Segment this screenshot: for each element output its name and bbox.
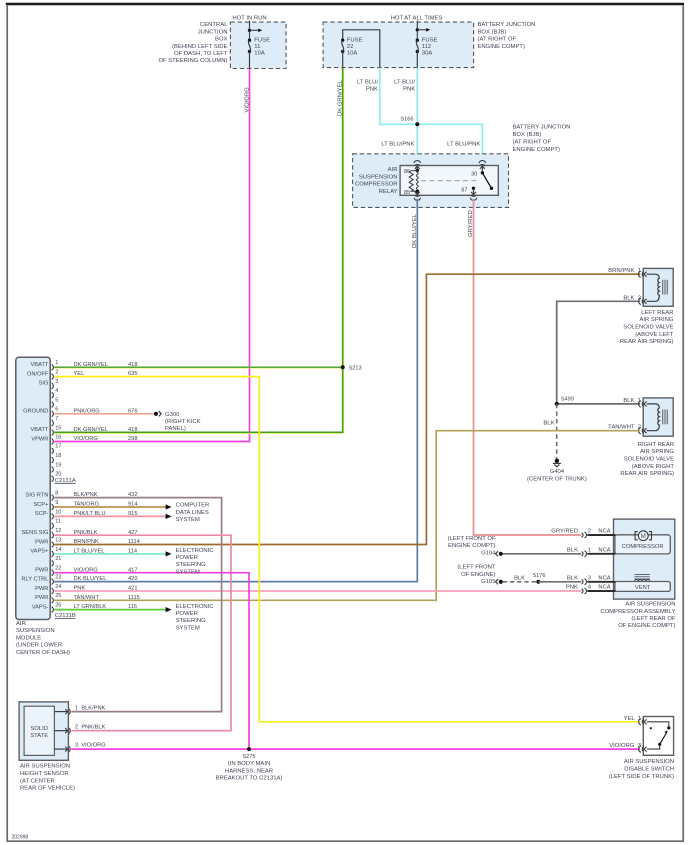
svg-text:(LEFT FRONT OF: (LEFT FRONT OF	[448, 536, 496, 542]
wire DK GRN/YEL 418 branch to module pin 1 at S213	[54, 366, 343, 368]
wire BLK/PNK 432 from module pin 8 to height sensor pin 1	[54, 498, 221, 712]
svg-text:S166: S166	[400, 117, 413, 123]
svg-text:DK GRN/YEL: DK GRN/YEL	[74, 362, 108, 368]
svg-text:NCA: NCA	[598, 575, 610, 581]
svg-text:G300: G300	[165, 412, 180, 418]
left rear valve solenoid coil	[647, 274, 660, 301]
svg-text:BLK: BLK	[567, 575, 578, 581]
svg-text:NCA: NCA	[598, 585, 610, 591]
svg-text:REAR AIR SPRING): REAR AIR SPRING)	[620, 471, 674, 477]
wire LT BLU/PNK from S166 to relay pin 30	[417, 124, 482, 161]
svg-text:PWR: PWR	[35, 539, 48, 545]
wire VIO/ORG from height sensor pin 3 to disable switch pin 3	[71, 748, 640, 750]
wire GRY/RED from relay pin 87 to compressor pin 2	[474, 199, 582, 535]
svg-text:RIGHT REAR: RIGHT REAR	[638, 442, 674, 448]
svg-text:CENTRAL: CENTRAL	[200, 22, 228, 28]
module pin 10 connector	[52, 514, 54, 520]
svg-text:PANEL): PANEL)	[165, 426, 186, 432]
module pin 1 connector	[52, 365, 54, 371]
module pin 11 connector	[52, 523, 54, 529]
svg-text:11: 11	[55, 519, 61, 525]
svg-text:10A: 10A	[347, 51, 358, 57]
relay pin 86 connector	[415, 164, 420, 165]
wire TAN/WHT 1115 from module pin 25 to right rear valve pin 2	[54, 431, 640, 601]
svg-text:REAR AIR SPRING): REAR AIR SPRING)	[620, 339, 674, 345]
wire BLK from left rear valve pin 2 to S499	[557, 301, 641, 404]
right rear valve core lines	[662, 410, 664, 425]
right rear air spring solenoid valve body	[643, 398, 673, 436]
right rear valve pin 1 connector	[642, 401, 643, 406]
module pin 13 connector	[52, 542, 54, 548]
left rear valve pin 1 connector	[642, 272, 643, 277]
wire BLK dashed from S499 to ground G404	[556, 404, 558, 460]
disable switch blade	[660, 733, 667, 744]
svg-text:SOLID: SOLID	[30, 726, 47, 732]
svg-text:AIR SUSPENSION: AIR SUSPENSION	[624, 759, 674, 765]
svg-text:2 PNK/BLK: 2 PNK/BLK	[75, 724, 106, 730]
svg-text:15: 15	[55, 425, 61, 431]
svg-text:ENGINE COMPT): ENGINE COMPT)	[448, 543, 495, 549]
compressor pin 2 NCA lead	[587, 534, 615, 536]
module pin 8 connector	[52, 495, 54, 501]
svg-text:AIR SUSPENSION: AIR SUSPENSION	[625, 602, 675, 608]
svg-text:STATE: STATE	[30, 733, 48, 739]
svg-text:PWR: PWR	[35, 595, 48, 601]
svg-text:DATA LINES: DATA LINES	[176, 510, 209, 516]
svg-text:3 VIO/ORG: 3 VIO/ORG	[75, 743, 106, 749]
wire BLK from S176 to compressor pin 3	[538, 581, 581, 583]
module pin 25 connector	[52, 598, 54, 604]
svg-text:25: 25	[55, 593, 61, 599]
svg-text:FUSE: FUSE	[254, 38, 270, 44]
svg-text:SYSTEM: SYSTEM	[176, 625, 200, 631]
svg-text:(ABOVE LEFT: (ABOVE LEFT	[635, 332, 674, 338]
svg-text:11: 11	[254, 44, 260, 50]
svg-text:LT BLU/PNK: LT BLU/PNK	[447, 142, 480, 148]
compressor pin 1 inline connector	[582, 552, 583, 556]
svg-text:HARNESS, NEAR: HARNESS, NEAR	[225, 768, 273, 774]
air suspension module body	[16, 357, 50, 619]
svg-text:SYSTEM: SYSTEM	[176, 569, 200, 575]
svg-text:OF ENGINE): OF ENGINE)	[461, 572, 495, 578]
svg-text:STEERING: STEERING	[176, 562, 207, 568]
wire DK BLU/YEL 420 from relay pin 85 to module pin 23	[54, 199, 417, 582]
svg-text:30: 30	[471, 171, 477, 177]
vent solenoid coil	[634, 574, 649, 576]
svg-text:GRY/RED: GRY/RED	[551, 529, 578, 535]
svg-text:G105: G105	[481, 579, 496, 585]
svg-text:18: 18	[55, 453, 61, 459]
svg-text:VPWR: VPWR	[31, 436, 48, 442]
bypass wire from fuse 22 top to box exit	[343, 30, 380, 68]
wire YEL 635 from module pin 2 to disable switch pin 1	[54, 377, 640, 722]
right rear valve pin 2 connector	[642, 428, 643, 433]
svg-text:OF STEERING COLUMN): OF STEERING COLUMN)	[158, 58, 227, 64]
wire LT GRN/BLK 115 from module pin 26 to EPS system	[54, 609, 166, 611]
svg-text:30A: 30A	[422, 51, 433, 57]
module pin 3 connector	[52, 383, 54, 389]
module pin 19 connector	[52, 467, 54, 473]
relay pin 87 lead	[472, 187, 475, 190]
central junction box (dashed, fuse 11)	[230, 22, 286, 68]
svg-text:VAPS-: VAPS-	[32, 604, 49, 610]
relay pin 85 connector	[416, 192, 418, 196]
svg-text:COMPUTER: COMPUTER	[176, 503, 210, 509]
svg-text:GRY/RED: GRY/RED	[468, 210, 474, 237]
svg-text:COMPRESSOR ASSEMBLY: COMPRESSOR ASSEMBLY	[600, 609, 675, 615]
fuse F11	[248, 39, 251, 42]
svg-text:2: 2	[55, 370, 58, 376]
svg-text:(LEFT REAR OF: (LEFT REAR OF	[631, 616, 675, 622]
module pin 6 connector	[52, 411, 54, 417]
svg-text:1: 1	[55, 360, 58, 366]
compressor pin 4 NCA lead	[587, 590, 615, 592]
wire VIO/ORG 298 from fuse 11 to module pin 16	[54, 69, 249, 442]
svg-text:14: 14	[55, 547, 61, 553]
svg-text:M: M	[641, 534, 646, 540]
battery junction box (dashed, fuses 22 and 112)	[323, 22, 474, 68]
svg-text:1114: 1114	[128, 539, 140, 545]
svg-text:BREAKOUT TO C2131A): BREAKOUT TO C2131A)	[216, 776, 283, 782]
svg-text:298: 298	[128, 436, 138, 442]
svg-text:17: 17	[55, 444, 61, 450]
module pin 16 connector	[52, 439, 54, 445]
wire PNK/ORG 676 from module pin 6 to ground G300	[54, 413, 153, 415]
svg-text:LT BLU/: LT BLU/	[357, 79, 378, 85]
svg-text:VBATT: VBATT	[30, 362, 48, 368]
svg-text:(AT RIGHT OF: (AT RIGHT OF	[513, 139, 552, 145]
feed wire into fuse 11	[249, 21, 251, 41]
splice S499	[555, 402, 559, 406]
air suspension height sensor body	[19, 702, 68, 760]
wire LT BLU/PNK from fuse 112 down to relay pin 86	[416, 68, 418, 162]
wire PNK 421 from module pin 24 to compressor pin 4	[54, 590, 581, 592]
svg-text:SOLENOID VALVE: SOLENOID VALVE	[623, 325, 673, 331]
svg-text:ENGINE COMPT): ENGINE COMPT)	[478, 44, 525, 50]
svg-text:1: 1	[588, 547, 591, 553]
svg-text:ENGINE COMPT): ENGINE COMPT)	[513, 147, 560, 153]
vent box	[615, 582, 670, 592]
svg-text:10A: 10A	[254, 51, 265, 57]
svg-text:23: 23	[55, 575, 61, 581]
svg-text:LEFT REAR: LEFT REAR	[641, 310, 673, 316]
relay switch blade	[482, 173, 491, 188]
wire BRN/PNK 1114 from module pin 13 to left rear valve pin 1	[54, 274, 640, 544]
splice S166	[415, 122, 419, 126]
svg-text:BLK: BLK	[543, 421, 554, 427]
svg-text:418: 418	[128, 362, 138, 368]
svg-text:SENS SIG: SENS SIG	[22, 530, 49, 536]
module pin 20 connector	[52, 476, 54, 482]
svg-text:1 BLK/PNK: 1 BLK/PNK	[75, 705, 106, 711]
wire below fuse 11 (inside box)	[249, 52, 251, 69]
relay linkage (dashed)	[421, 180, 479, 182]
wire LT BLU/PNK from fuse 22 bypass down to S166	[380, 68, 418, 125]
svg-text:BRN/PNK 1: BRN/PNK 1	[608, 268, 641, 274]
svg-text:AIR: AIR	[16, 621, 26, 627]
wire LT BLU/YEL 114 from module pin 14 to EPS system	[54, 553, 166, 555]
wire DK GRN/YEL 418 from fuse 22 to module pin 15	[54, 68, 343, 433]
svg-text:FUSE: FUSE	[422, 38, 438, 44]
compressor pin 3 inline connector	[582, 580, 583, 584]
relay pin 87 connector	[471, 195, 476, 196]
svg-text:26: 26	[55, 603, 61, 609]
module pin 26 connector	[52, 607, 54, 613]
svg-text:SUSPENSION: SUSPENSION	[359, 174, 398, 180]
svg-text:YEL 1: YEL 1	[624, 716, 641, 722]
svg-text:19: 19	[55, 462, 61, 468]
svg-text:HOT AT ALL TIMES: HOT AT ALL TIMES	[391, 15, 443, 21]
svg-text:(LEFT FRONT: (LEFT FRONT	[457, 565, 496, 571]
svg-text:420: 420	[128, 576, 138, 582]
module pin 21 connector	[52, 561, 54, 567]
compressor pin 1 NCA lead	[587, 553, 615, 555]
svg-text:SCP+: SCP+	[33, 502, 49, 508]
splice S275	[247, 747, 251, 751]
svg-text:SCP-: SCP-	[35, 511, 49, 517]
svg-text:AIR SPRING: AIR SPRING	[640, 449, 674, 455]
module pin 4 connector	[52, 392, 54, 398]
svg-text:S213: S213	[349, 366, 362, 372]
svg-text:SYSTEM: SYSTEM	[176, 517, 200, 523]
compressor pin 2 inline connector	[582, 533, 583, 537]
svg-text:ELECTRONIC: ELECTRONIC	[176, 548, 215, 554]
relay pin 86 lead	[416, 166, 418, 171]
svg-text:S275: S275	[242, 754, 255, 760]
svg-text:22: 22	[55, 566, 61, 572]
svg-text:STEERING: STEERING	[176, 618, 207, 624]
module pin 17 connector	[52, 448, 54, 454]
battery junction box 2 (dashed, relay)	[353, 154, 509, 208]
svg-text:421: 421	[128, 586, 138, 592]
svg-text:BOX: BOX	[215, 37, 228, 43]
wire TAN/ORG 914 from module pin 9 to computer data lines	[54, 506, 166, 508]
svg-text:24: 24	[55, 584, 61, 590]
svg-text:9: 9	[55, 500, 58, 506]
svg-text:VIO/ORG 3: VIO/ORG 3	[609, 743, 641, 749]
svg-text:VBATT: VBATT	[30, 427, 48, 433]
svg-text:ON/OFF: ON/OFF	[27, 371, 49, 377]
svg-text:HOT IN RUN: HOT IN RUN	[232, 15, 266, 21]
svg-text:COMPRESSOR: COMPRESSOR	[622, 544, 664, 550]
svg-text:8: 8	[55, 491, 58, 497]
svg-text:AIR: AIR	[388, 167, 398, 173]
svg-text:BLK 2: BLK 2	[623, 295, 641, 301]
compressor pin 3 NCA lead	[587, 581, 615, 583]
svg-text:3: 3	[55, 379, 58, 385]
svg-text:G104: G104	[481, 550, 496, 556]
svg-text:OF DASH, TO LEFT: OF DASH, TO LEFT	[174, 51, 228, 57]
module pin 12 connector	[52, 532, 54, 538]
module pin 14 connector	[52, 551, 54, 557]
right rear valve solenoid coil	[647, 404, 660, 431]
svg-text:RLY CTRL: RLY CTRL	[21, 576, 48, 582]
module pin 22 connector	[52, 570, 54, 576]
svg-text:7: 7	[55, 416, 58, 422]
svg-text:TAN/WHT 2: TAN/WHT 2	[608, 425, 641, 431]
svg-text:87: 87	[461, 188, 467, 194]
svg-text:POWER: POWER	[176, 555, 198, 561]
feed wire into fuse 112	[416, 21, 418, 41]
svg-text:(LEFT SIDE OF TRUNK): (LEFT SIDE OF TRUNK)	[609, 774, 674, 780]
svg-text:2: 2	[588, 529, 591, 535]
module pin 23 connector	[52, 579, 54, 585]
wire BLK dashed from G105 to splice S176	[503, 581, 536, 583]
svg-text:GROUND: GROUND	[23, 409, 48, 415]
disable switch internal contacts	[647, 722, 669, 727]
svg-text:BLK: BLK	[567, 547, 578, 553]
svg-text:418: 418	[128, 427, 138, 433]
svg-text:112: 112	[422, 44, 431, 50]
wire PNK/LT BLU 915 from module pin 10 to computer data lines	[54, 515, 166, 517]
svg-text:4: 4	[55, 388, 58, 394]
splice S176	[536, 580, 540, 584]
svg-text:3: 3	[588, 575, 591, 581]
svg-text:4: 4	[588, 585, 591, 591]
height sensor pin 3 lead	[54, 748, 67, 750]
svg-text:NCA: NCA	[598, 547, 610, 553]
svg-text:DK GRN/YEL: DK GRN/YEL	[74, 427, 108, 433]
svg-text:REAR OF VEHICLE): REAR OF VEHICLE)	[20, 786, 75, 792]
svg-text:(AT RIGHT OF: (AT RIGHT OF	[478, 37, 517, 43]
module pin 9 connector	[52, 504, 54, 510]
compressor pin 4 inline connector	[582, 589, 583, 593]
svg-text:COMPRESSOR: COMPRESSOR	[355, 182, 398, 188]
svg-text:BLK 1: BLK 1	[623, 398, 641, 404]
svg-text:FUSE: FUSE	[347, 38, 363, 44]
fuse F22	[341, 39, 344, 42]
svg-text:DISABLE SWITCH: DISABLE SWITCH	[624, 767, 674, 773]
svg-text:21: 21	[55, 556, 61, 562]
svg-text:HEIGHT SENSOR: HEIGHT SENSOR	[20, 771, 69, 777]
svg-text:PWR: PWR	[35, 568, 48, 574]
compressor motor symbol	[638, 531, 648, 541]
svg-text:AIR SUSPENSION: AIR SUSPENSION	[20, 764, 70, 770]
splice S213	[341, 365, 345, 369]
height sensor pin 2 lead	[54, 730, 67, 732]
svg-text:20: 20	[55, 472, 61, 478]
svg-text:(IN BODY MAIN: (IN BODY MAIN	[228, 761, 270, 767]
module pin 2 connector	[52, 374, 54, 380]
svg-text:DK BLU/YEL: DK BLU/YEL	[412, 213, 418, 248]
left rear air spring solenoid valve body	[643, 268, 673, 306]
air suspension disable switch body	[643, 717, 673, 756]
svg-text:12: 12	[55, 528, 61, 534]
wire PNK/BLK 427 from module pin 12 to height sensor pin 2	[54, 535, 231, 731]
svg-text:VAPS+: VAPS+	[30, 549, 49, 555]
ground G404	[555, 459, 559, 463]
svg-text:BATTERY JUNCTION: BATTERY JUNCTION	[513, 125, 571, 131]
svg-text:POWER: POWER	[176, 611, 198, 617]
svg-text:16: 16	[55, 434, 61, 440]
svg-text:13: 13	[55, 537, 61, 543]
height sensor pin 1 lead	[54, 711, 67, 713]
relay K (air suspension compressor relay) body	[400, 166, 498, 196]
ground G300	[159, 411, 161, 416]
module pin 5 connector	[52, 402, 54, 408]
disable switch pin 3 connector	[642, 746, 643, 751]
svg-text:SIG RTN: SIG RTN	[25, 492, 48, 498]
svg-text:SUSPENSION: SUSPENSION	[16, 628, 55, 634]
svg-text:(BEHIND LEFT SIDE: (BEHIND LEFT SIDE	[172, 44, 228, 50]
svg-text:(UNDER LOWER: (UNDER LOWER	[16, 643, 62, 649]
svg-text:JUNCTION: JUNCTION	[198, 29, 228, 35]
svg-text:AIR SPRING: AIR SPRING	[639, 317, 673, 323]
svg-text:(CENTER OF TRUNK): (CENTER OF TRUNK)	[527, 476, 587, 482]
svg-text:G404: G404	[550, 469, 565, 475]
relay pin 30 lead	[481, 166, 483, 173]
svg-text:SOLENOID VALVE: SOLENOID VALVE	[624, 457, 674, 463]
wire VIO/ORG 417 from module pin 22 to splice S275	[54, 573, 249, 749]
svg-text:VIO/ORG: VIO/ORG	[74, 436, 98, 442]
relay coil between pins 86 and 85	[409, 171, 417, 192]
svg-text:BRN/PNK: BRN/PNK	[74, 539, 99, 545]
svg-text:RELAY: RELAY	[379, 189, 398, 195]
module pin 15 connector	[52, 430, 54, 436]
svg-text:ELECTRONIC: ELECTRONIC	[176, 604, 215, 610]
svg-text:BOX (BJB): BOX (BJB)	[478, 29, 507, 35]
svg-text:S176: S176	[532, 573, 545, 579]
svg-text:S499: S499	[561, 396, 574, 402]
svg-text:(RIGHT KICK: (RIGHT KICK	[165, 419, 201, 425]
svg-text:202998: 202998	[12, 834, 29, 840]
disable switch pin 1 connector	[642, 719, 643, 724]
svg-text:BATTERY JUNCTION: BATTERY JUNCTION	[478, 22, 536, 28]
svg-text:PNK: PNK	[403, 86, 415, 92]
svg-text:BLK: BLK	[514, 575, 525, 581]
svg-text:NCA: NCA	[598, 529, 610, 535]
svg-text:SIG: SIG	[39, 381, 49, 387]
fuse F112	[416, 39, 419, 42]
svg-text:TAN/WHT: TAN/WHT	[74, 595, 100, 601]
svg-text:PNK: PNK	[366, 86, 378, 92]
wire below fuse 22 (inside box)	[342, 52, 344, 68]
module pin 24 connector	[52, 588, 54, 594]
svg-text:DK BLU/YEL: DK BLU/YEL	[74, 576, 107, 582]
svg-text:(ABOVE RIGHT: (ABOVE RIGHT	[632, 464, 675, 470]
left rear valve core lines	[662, 280, 664, 295]
relay pin 30 connector	[480, 164, 485, 165]
svg-text:85: 85	[404, 190, 410, 196]
svg-text:PNK: PNK	[74, 586, 86, 592]
svg-text:CENTER OF DASH): CENTER OF DASH)	[16, 650, 70, 656]
compressor motor box	[615, 535, 670, 554]
module pin 7 connector	[52, 420, 54, 426]
svg-text:VENT: VENT	[635, 585, 651, 591]
svg-text:OF ENGINE COMPT): OF ENGINE COMPT)	[618, 623, 675, 629]
air suspension compressor assembly body	[614, 519, 675, 599]
module pin 18 connector	[52, 457, 54, 463]
svg-text:LT BLU/PNK: LT BLU/PNK	[381, 142, 414, 148]
wire below fuse 112 (inside box)	[416, 52, 418, 68]
left rear valve pin 2 connector	[642, 299, 643, 304]
svg-text:(AT CENTER: (AT CENTER	[20, 778, 55, 784]
svg-text:PWR: PWR	[35, 586, 48, 592]
svg-text:MODULE: MODULE	[16, 635, 41, 641]
wire BLK from G104 to compressor pin 1	[503, 553, 581, 555]
svg-text:LT BLU/: LT BLU/	[394, 79, 415, 85]
svg-text:PNK: PNK	[566, 585, 578, 591]
svg-text:22: 22	[347, 44, 354, 50]
wire BLK from S499 to right rear valve pin 1	[557, 403, 641, 405]
svg-text:BOX (BJB): BOX (BJB)	[513, 132, 542, 138]
svg-text:5: 5	[55, 397, 58, 403]
height sensor solid state box	[24, 706, 54, 755]
svg-text:10: 10	[55, 509, 61, 515]
svg-text:1115: 1115	[128, 595, 140, 601]
svg-text:6: 6	[55, 407, 58, 413]
